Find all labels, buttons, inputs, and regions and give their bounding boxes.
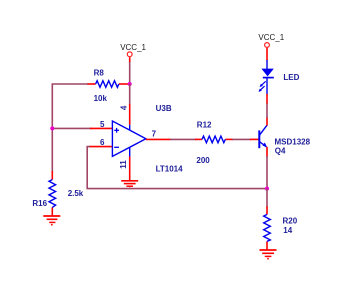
label 10k	[94, 94, 108, 103]
LED bottom stub	[266, 94, 268, 104]
svg-text:VCC_1: VCC_1	[120, 43, 146, 52]
pin 5 stub	[90, 127, 112, 129]
svg-text:R20: R20	[283, 217, 298, 226]
label U3B	[156, 104, 172, 113]
label R16	[32, 199, 47, 208]
resistor R16	[49, 171, 56, 216]
label R20	[283, 217, 298, 226]
pin 11 symbol lead	[129, 147, 131, 157]
junction at emitter/rail node	[265, 187, 269, 191]
power symbol VCC_1 (right)	[258, 33, 284, 47]
label Q4	[275, 146, 286, 155]
op-amp U3B	[112, 121, 145, 156]
svg-text:4: 4	[120, 105, 129, 110]
label LT1014	[156, 164, 184, 173]
LED D1	[259, 60, 274, 94]
svg-text:200: 200	[196, 156, 210, 165]
ground under R16	[43, 216, 60, 226]
wire emitter down to junction	[266, 156, 268, 189]
svg-text:2.5k: 2.5k	[68, 189, 84, 198]
junction at VCC/R8 node	[128, 82, 132, 86]
svg-text:VCC_1: VCC_1	[258, 33, 284, 42]
wire pin5 from left rail	[52, 127, 92, 129]
collector stub	[266, 117, 268, 126]
base stub	[250, 138, 259, 140]
svg-text:R12: R12	[197, 121, 212, 130]
wire R12 to base	[232, 138, 251, 140]
label 14	[283, 226, 292, 235]
svg-text:U3B: U3B	[156, 104, 172, 113]
svg-text:Q4: Q4	[275, 146, 286, 155]
svg-text:LED: LED	[283, 73, 299, 82]
svg-text:R16: R16	[32, 199, 47, 208]
wire junction down to R20	[266, 189, 268, 208]
wire collector up to LED	[266, 103, 268, 119]
label 2.5k	[68, 189, 84, 198]
label R8	[94, 69, 105, 78]
label 200	[196, 156, 210, 165]
transistor Q4	[259, 125, 267, 148]
pin 4 stub	[129, 104, 131, 125]
emitter stub	[266, 147, 268, 157]
power symbol VCC_1 (left)	[120, 43, 146, 56]
wire VCC_1 right stub	[266, 48, 268, 61]
label pin 5	[100, 120, 105, 129]
pin 6 stub	[89, 146, 112, 148]
svg-text:14: 14	[283, 226, 292, 235]
resistor R12	[195, 136, 233, 143]
label R12	[197, 121, 212, 130]
wire pin6 feedback down and along bottom rail	[87, 147, 267, 189]
svg-text:R8: R8	[94, 69, 105, 78]
label pin 6	[100, 138, 105, 147]
junction at rail/pin5 node	[50, 126, 54, 130]
wire pin4 from VCC junction	[129, 84, 131, 105]
wire op-amp output to R12	[170, 138, 196, 140]
svg-text:7: 7	[152, 129, 157, 138]
label pin 11	[119, 160, 128, 169]
resistor R20	[264, 207, 271, 250]
label LED	[283, 73, 299, 82]
svg-text:5: 5	[100, 120, 105, 129]
ground under pin 11	[121, 181, 138, 190]
pin 7 stub	[146, 138, 171, 140]
wire VCC_1 left stub	[129, 57, 131, 63]
resistor R8	[87, 81, 130, 88]
pin 11 stub	[129, 157, 131, 182]
label MSD1328	[275, 138, 311, 147]
label pin 7	[152, 129, 157, 138]
svg-text:LT1014: LT1014	[156, 164, 184, 173]
svg-text:11: 11	[119, 160, 128, 169]
wire R8 left to rail corner	[52, 84, 88, 172]
ground under R20	[260, 250, 277, 260]
label pin 4	[120, 105, 129, 110]
pin 4 symbol lead	[129, 125, 131, 131]
svg-text:6: 6	[100, 138, 105, 147]
svg-text:10k: 10k	[94, 94, 108, 103]
wire VCC_1 left down to R8 junction	[129, 62, 131, 84]
